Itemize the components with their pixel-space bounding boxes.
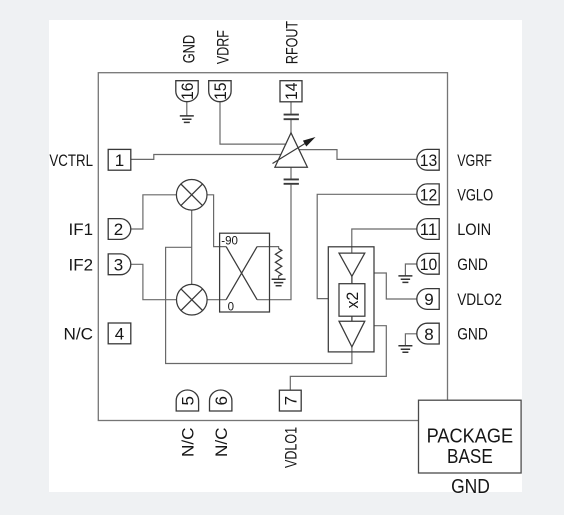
wire pin10 ground stub bbox=[405, 264, 416, 276]
svg-text:5: 5 bbox=[179, 396, 198, 405]
pin 2 pad bbox=[108, 219, 131, 240]
x2 box bbox=[339, 276, 365, 321]
wire x2 block to pin7 VDLO1 bbox=[290, 326, 386, 391]
pin 9 pad bbox=[417, 289, 439, 310]
variable gain amplifier bbox=[273, 133, 316, 167]
ground at pin8 bbox=[398, 346, 412, 353]
pin 15 pad bbox=[209, 81, 231, 102]
ground at hybrid resistor bbox=[272, 279, 286, 286]
svg-text:VCTRL: VCTRL bbox=[49, 151, 93, 170]
svg-text:3: 3 bbox=[114, 256, 123, 275]
wire mixer1 output into hybrid -90 port bbox=[207, 195, 226, 247]
wire mixer2 output into hybrid 0 input bbox=[207, 299, 226, 301]
pin 3 pad bbox=[108, 254, 131, 275]
svg-text:VDLO1: VDLO1 bbox=[282, 427, 301, 468]
pin 12 pad bbox=[417, 184, 439, 205]
capacitor C2 bbox=[284, 179, 299, 183]
package base box bbox=[419, 400, 522, 498]
svg-text:16: 16 bbox=[178, 82, 197, 100]
pin 1 pad bbox=[108, 149, 131, 170]
mixer M2 bbox=[177, 284, 208, 315]
svg-text:-90: -90 bbox=[221, 235, 238, 247]
svg-text:GND: GND bbox=[457, 325, 488, 344]
wire pin2 IF1 to mixer1 bbox=[131, 195, 176, 229]
svg-text:7: 7 bbox=[281, 396, 300, 405]
svg-text:VDLO2: VDLO2 bbox=[457, 290, 502, 309]
svg-text:VGRF: VGRF bbox=[457, 151, 492, 170]
white drawing sheet bbox=[49, 20, 522, 492]
wire cap to amp apex bbox=[290, 120, 292, 133]
pin boxes bbox=[108, 81, 439, 411]
svg-text:GND: GND bbox=[451, 476, 490, 498]
wire amp output to pin13 bbox=[299, 150, 417, 160]
wire pin1 VCTRL to amp bbox=[131, 155, 281, 160]
wire amp base to lower cap bbox=[290, 167, 292, 178]
svg-text:6: 6 bbox=[212, 396, 231, 405]
svg-text:x2: x2 bbox=[343, 292, 362, 309]
svg-text:VGLO: VGLO bbox=[457, 185, 493, 204]
pin 14 pad bbox=[280, 81, 302, 102]
svg-text:9: 9 bbox=[424, 290, 433, 309]
svg-text:N/C: N/C bbox=[212, 428, 231, 458]
svg-text:14: 14 bbox=[282, 82, 301, 100]
wire pin8 ground stub bbox=[405, 334, 416, 346]
capacitor C1 bbox=[284, 115, 299, 120]
svg-text:PACKAGE: PACKAGE bbox=[427, 426, 514, 448]
x2 input amplifier bbox=[339, 253, 365, 276]
pin 11 pad bbox=[417, 219, 439, 240]
ground at pin16 bbox=[180, 116, 194, 123]
svg-text:N/C: N/C bbox=[179, 428, 198, 458]
svg-text:RFOUT: RFOUT bbox=[282, 21, 301, 64]
90 degree hybrid bbox=[220, 233, 270, 312]
hybrid port labels bbox=[221, 235, 238, 313]
svg-text:8: 8 bbox=[424, 325, 433, 344]
svg-text:IF1: IF1 bbox=[69, 220, 94, 239]
wire lower cap to hybrid 0-port bbox=[257, 185, 291, 300]
svg-text:4: 4 bbox=[115, 325, 124, 344]
wire pin16 ground stem bbox=[186, 102, 188, 116]
pin 13 pad bbox=[417, 149, 439, 170]
pin 7 pad bbox=[279, 390, 301, 411]
svg-text:1: 1 bbox=[115, 151, 124, 170]
chip outline bbox=[98, 73, 447, 421]
svg-text:15: 15 bbox=[211, 82, 230, 100]
wire x2 block to pin9 VDLO2 bbox=[374, 273, 417, 299]
resistor bbox=[275, 249, 281, 276]
x2 multiplier block outline bbox=[328, 247, 374, 352]
svg-text:0: 0 bbox=[228, 301, 234, 313]
svg-text:IF2: IF2 bbox=[69, 255, 94, 274]
ground at pin10 bbox=[398, 276, 412, 283]
wire pin14 to coupling cap bbox=[290, 102, 292, 114]
wire pin3 IF2 to mixer2 bbox=[131, 264, 177, 299]
pin 16 pad bbox=[176, 81, 198, 102]
svg-text:2: 2 bbox=[114, 220, 123, 239]
wire LO between mixers bbox=[191, 210, 193, 284]
svg-text:GND: GND bbox=[179, 35, 198, 64]
side labels bbox=[49, 21, 502, 468]
svg-text:VDRF: VDRF bbox=[214, 30, 233, 64]
pin 6 pad bbox=[210, 390, 232, 411]
wire pin15 VDRF to amp bbox=[220, 102, 286, 144]
x2 output amplifier bbox=[339, 321, 365, 347]
wire hybrid isolated port to resistor bbox=[257, 247, 279, 249]
wire LO feed from x2 to mixers bbox=[166, 247, 352, 363]
wire pin11 LOIN to x2 input bbox=[352, 229, 417, 253]
pin 10 pad bbox=[417, 253, 439, 274]
pin 5 pad bbox=[176, 390, 198, 411]
svg-text:10: 10 bbox=[420, 255, 438, 274]
wire resistor to ground bbox=[278, 276, 280, 279]
pin 8 pad bbox=[417, 323, 439, 344]
svg-text:12: 12 bbox=[420, 186, 438, 205]
svg-text:LOIN: LOIN bbox=[457, 220, 491, 239]
wire pin12 VGLO to x2 block bbox=[317, 194, 417, 298]
pin 4 pad bbox=[108, 323, 131, 344]
svg-text:N/C: N/C bbox=[64, 325, 94, 344]
mixer M1 bbox=[176, 180, 207, 211]
svg-text:GND: GND bbox=[457, 255, 488, 274]
svg-text:11: 11 bbox=[420, 220, 438, 239]
svg-text:BASE: BASE bbox=[447, 446, 493, 468]
svg-text:13: 13 bbox=[420, 151, 438, 170]
